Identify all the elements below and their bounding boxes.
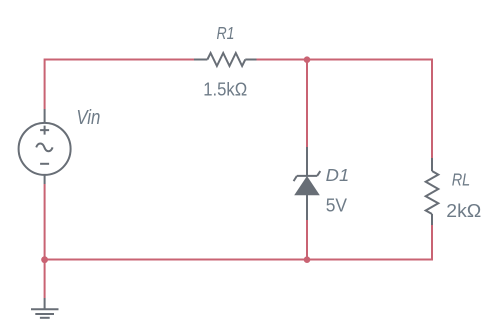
- svg-text:Vin: Vin: [76, 106, 100, 129]
- resistor R1: [194, 53, 257, 66]
- wire RL bottom to bottom-right corner to node B: [307, 225, 432, 260]
- wire node C to ground: [44, 260, 46, 299]
- svg-text:2kΩ: 2kΩ: [446, 201, 481, 221]
- svg-text:5V: 5V: [326, 196, 347, 216]
- voltage source V1 (Vin): [19, 109, 71, 184]
- wire node B to node C bottom left: [45, 259, 307, 261]
- node B (bottom middle junction): [304, 256, 311, 263]
- svg-text:1.5kΩ: 1.5kΩ: [203, 80, 247, 100]
- ground: [31, 298, 59, 318]
- zener diode D1: [294, 147, 321, 220]
- wire Vin bottom to node C: [44, 184, 46, 260]
- wire node A down to D1 top: [306, 60, 308, 148]
- wire D1 bottom to node B: [306, 220, 308, 260]
- svg-text:R1: R1: [217, 23, 235, 43]
- svg-text:RL: RL: [452, 170, 471, 190]
- node A (top junction): [304, 56, 311, 63]
- wire R1 right to node A: [257, 59, 308, 61]
- node C (bottom left junction): [41, 256, 48, 263]
- svg-text:D1: D1: [326, 165, 350, 185]
- resistor RL: [426, 158, 439, 225]
- wire node A to top-right corner down to RL top: [307, 60, 432, 159]
- wire from Vin top to R1 left: [45, 60, 194, 110]
